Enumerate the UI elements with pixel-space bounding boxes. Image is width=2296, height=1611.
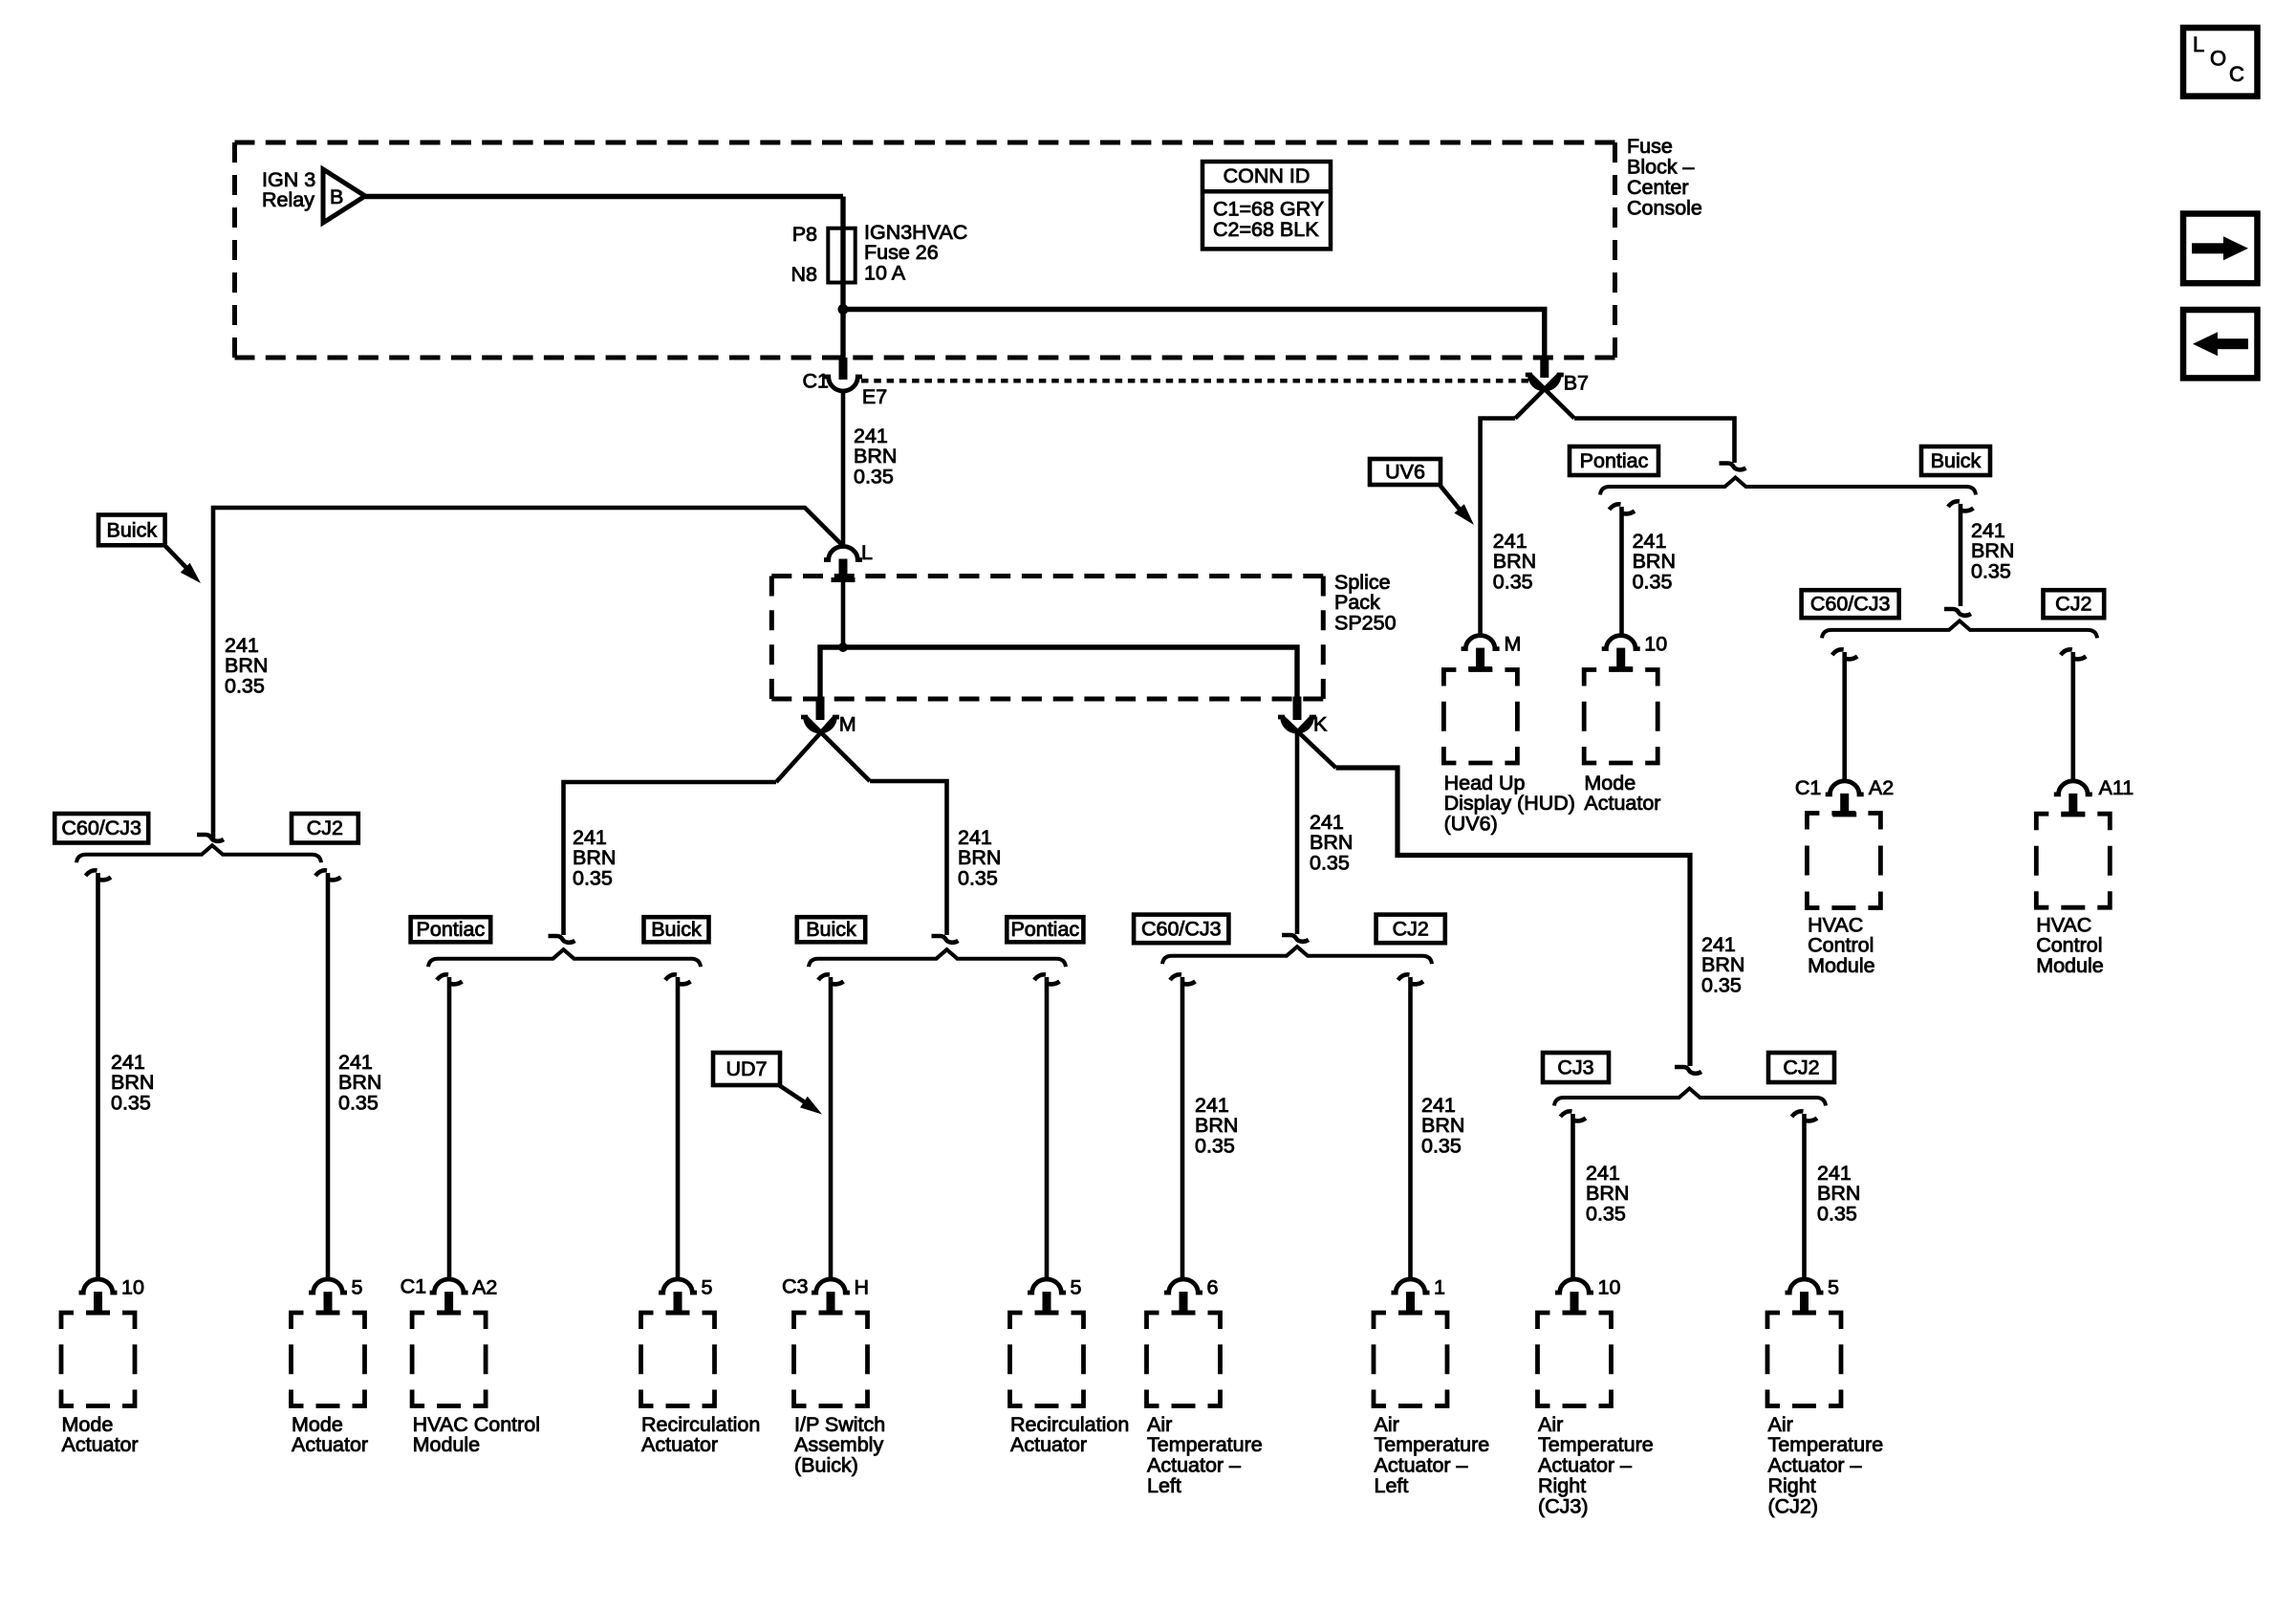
svg-text:Buick: Buick (1931, 449, 1982, 472)
svg-text:0.35: 0.35 (1310, 852, 1350, 875)
svg-text:Fuse 26: Fuse 26 (864, 241, 939, 264)
svg-text:241: 241 (1493, 530, 1527, 553)
label IGN 3 Relay (262, 168, 315, 211)
hook and wire to Recirculation Actuator (A) (665, 974, 691, 1279)
svg-text:Module: Module (2036, 954, 2104, 977)
wire label 241 BRN 0.35 (col10) (1817, 1162, 1860, 1226)
brace feed curl (right C60 group) (1944, 609, 1971, 616)
svg-text:Control: Control (2036, 934, 2102, 957)
connector A11 of HVAC module (CJ2) (2054, 776, 2134, 817)
svg-text:CJ2: CJ2 (1393, 917, 1429, 940)
Mode Actuator 1 dashed box (61, 1313, 135, 1406)
svg-text:Mode: Mode (62, 1413, 114, 1436)
svg-text:CJ2: CJ2 (2055, 593, 2091, 616)
wire C1 to connector L (841, 391, 846, 547)
svg-text:Temperature: Temperature (1375, 1433, 1490, 1456)
svg-text:BRN: BRN (225, 654, 268, 677)
connector 10 of Air Temperature Actuator - Right (CJ3) (1555, 1275, 1620, 1315)
svg-text:A2: A2 (1869, 776, 1894, 799)
svg-text:10: 10 (1598, 1275, 1621, 1298)
label I/P Switch Assembly (Buick) (794, 1413, 885, 1477)
svg-text:Pack: Pack (1334, 591, 1380, 614)
hook and wire to Air Temp Actuator Right CJ2 (1792, 1111, 1818, 1279)
svg-text:Center: Center (1627, 176, 1689, 199)
label CJ2 (group C) (1376, 915, 1445, 944)
dotted in-line connector line (861, 379, 1528, 383)
svg-text:241: 241 (1971, 519, 2005, 542)
wire M right branch to Buick/Pontiac brace (870, 781, 947, 935)
brace group D (1554, 1089, 1826, 1106)
svg-text:Temperature: Temperature (1147, 1433, 1263, 1456)
label Mode Actuator 1 (62, 1413, 139, 1456)
label Buick (top right) (1921, 446, 1990, 475)
brace group A (428, 949, 701, 967)
wire M left branch to Pontiac/Buick brace (564, 782, 777, 935)
svg-text:Temperature: Temperature (1538, 1433, 1654, 1456)
svg-text:Recirculation: Recirculation (1010, 1413, 1129, 1436)
wire label 241 BRN 0.35 (col7) (1195, 1094, 1238, 1158)
svg-text:C1: C1 (803, 370, 829, 393)
svg-text:Fuse: Fuse (1627, 135, 1673, 158)
wire label 241 BRN 0.35 (M right) (958, 826, 1001, 890)
svg-text:A11: A11 (2099, 776, 2134, 799)
svg-text:Control: Control (1808, 934, 1874, 957)
svg-text:(CJ2): (CJ2) (1768, 1494, 1819, 1517)
hook and wire to HVAC module A11 (2061, 649, 2087, 782)
svg-text:5: 5 (352, 1275, 363, 1298)
label CJ2 (group D) (1768, 1053, 1834, 1082)
svg-text:BRN: BRN (1701, 953, 1744, 976)
svg-text:0.35: 0.35 (573, 867, 613, 890)
label HVAC Control Module (bottom) (413, 1413, 540, 1456)
label Air Temperature Actuator - Left 1 (1375, 1413, 1490, 1497)
label CJ2 (left) (292, 814, 358, 843)
svg-text:10: 10 (121, 1275, 144, 1298)
svg-text:P8: P8 (792, 223, 817, 246)
wire L into splice bus (841, 578, 846, 647)
svg-text:241: 241 (338, 1051, 373, 1074)
hook and wire to I/P switch assembly (818, 974, 844, 1279)
label Pontiac (group B) (1007, 917, 1083, 942)
svg-text:BRN: BRN (1421, 1114, 1464, 1137)
label C60/CJ3 (left) (54, 814, 148, 843)
svg-text:241: 241 (1421, 1094, 1456, 1117)
svg-text:HVAC Control: HVAC Control (413, 1413, 540, 1436)
svg-text:C1: C1 (401, 1274, 426, 1297)
label Air Temperature Actuator - Right (CJ3) (1538, 1413, 1654, 1518)
brace right C60 group (1822, 620, 2097, 638)
forward arrow box (2183, 214, 2258, 284)
brace feed curl (group D) (1675, 1067, 1701, 1074)
svg-text:BRN: BRN (1586, 1182, 1629, 1205)
svg-text:5: 5 (702, 1275, 713, 1298)
svg-text:Air: Air (1768, 1413, 1793, 1436)
label UD7 with arrow (713, 1053, 822, 1115)
svg-text:241: 241 (573, 826, 607, 849)
svg-text:0.35: 0.35 (1195, 1135, 1235, 1158)
svg-text:L: L (2193, 33, 2204, 56)
svg-text:Pontiac: Pontiac (1010, 918, 1079, 941)
svg-text:Right: Right (1538, 1474, 1586, 1497)
svg-text:1: 1 (1434, 1275, 1445, 1298)
svg-text:0.35: 0.35 (1421, 1135, 1462, 1158)
Recirculation Actuator (A) dashed box (641, 1313, 715, 1406)
svg-text:241: 241 (111, 1051, 145, 1074)
svg-text:C60/CJ3: C60/CJ3 (1810, 593, 1891, 616)
svg-text:Console: Console (1627, 196, 1702, 219)
svg-text:Relay: Relay (262, 188, 314, 211)
label C60/CJ3 (group C) (1134, 915, 1228, 944)
svg-text:CONN ID: CONN ID (1224, 164, 1310, 187)
svg-text:C1=68 GRY: C1=68 GRY (1213, 197, 1324, 220)
brace feed curl (left group) (197, 835, 224, 841)
wire fuse vertical feed (840, 197, 845, 361)
svg-text:0.35: 0.35 (225, 675, 265, 698)
label HVAC Control Module (CJ2) (2036, 913, 2104, 977)
relay IGN 3 output triangle with pin B (323, 169, 365, 223)
svg-text:CJ2: CJ2 (1783, 1056, 1819, 1078)
svg-text:Head Up: Head Up (1444, 772, 1526, 795)
wire junction to B7 drop (843, 310, 1545, 361)
svg-text:HVAC: HVAC (2036, 913, 2091, 936)
svg-text:C1: C1 (1795, 776, 1821, 799)
wire relay B to fuse (365, 194, 843, 199)
wire label 241 BRN 0.35 (K right) (1701, 933, 1744, 997)
svg-text:Right: Right (1768, 1474, 1816, 1497)
wire label 241 BRN 0.35 (Mode right) (1633, 530, 1676, 594)
svg-text:Actuator: Actuator (292, 1433, 368, 1456)
label Pontiac (top right) (1570, 446, 1658, 475)
label Air Temperature Actuator - Right (CJ2) (1768, 1413, 1884, 1518)
LOC reference box (2183, 28, 2258, 97)
svg-text:HVAC: HVAC (1808, 913, 1863, 936)
svg-text:Splice: Splice (1334, 571, 1391, 594)
svg-text:Assembly: Assembly (794, 1433, 883, 1456)
label CJ3 (group D) (1543, 1053, 1609, 1082)
svg-text:Module: Module (413, 1433, 481, 1456)
svg-text:Buick: Buick (806, 918, 856, 941)
splice pack SP250 dashed box (771, 577, 1323, 700)
svg-text:C60/CJ3: C60/CJ3 (1141, 917, 1222, 940)
svg-text:Actuator: Actuator (62, 1433, 139, 1456)
svg-text:BRN: BRN (338, 1071, 381, 1094)
hook and wire down to C60/CJ3-CJ2 brace (1948, 501, 1974, 606)
Air Temperature Actuator - Left 6 dashed box (1147, 1313, 1221, 1406)
svg-text:241: 241 (1701, 933, 1736, 956)
connector B7 with crossover (1515, 358, 1589, 419)
connector 5 of Air Temperature Actuator - Right (CJ2) (1786, 1275, 1840, 1315)
svg-text:BRN: BRN (1971, 539, 2014, 562)
svg-text:Pontiac: Pontiac (417, 918, 486, 941)
wire label 241 BRN 0.35 (Buick right) (1971, 519, 2014, 583)
label Buick (group A) (644, 917, 709, 942)
HVAC Control Module dashed box (CJ2) (2036, 814, 2110, 907)
brace top right group (1600, 478, 1976, 495)
svg-text:C3: C3 (782, 1274, 809, 1297)
brace group B (809, 949, 1066, 967)
fuse block dashed box (Fuse Block - Center Console) (235, 142, 1615, 358)
connector 5 of Recirculation Actuator (A) (659, 1275, 713, 1315)
svg-text:10: 10 (1644, 633, 1667, 656)
svg-text:5: 5 (1828, 1275, 1839, 1298)
connector M of HUD (1462, 633, 1522, 672)
Air Temperature Actuator - Left 1 dashed box (1374, 1313, 1447, 1406)
svg-text:BRN: BRN (1310, 831, 1353, 854)
svg-text:B7: B7 (1564, 372, 1589, 395)
svg-text:(Buick): (Buick) (794, 1454, 858, 1477)
svg-text:M: M (839, 713, 856, 736)
svg-text:C2=68 BLK: C2=68 BLK (1213, 218, 1319, 241)
HVAC Control Module dashed box (CJ3) (1807, 814, 1880, 908)
wire label 241 BRN 0.35 (C1-L) (854, 425, 897, 489)
wire label 241 BRN 0.35 (col2) (338, 1051, 381, 1115)
junction dot at fuse output (838, 304, 849, 315)
svg-text:BRN: BRN (1633, 550, 1676, 573)
hook and wire to Mode Actuator 10 (86, 870, 112, 1279)
svg-text:Air: Air (1538, 1413, 1563, 1436)
wire K right branch to CJ3/CJ2 brace (1336, 768, 1691, 1066)
svg-text:K: K (1313, 713, 1328, 736)
label Air Temperature Actuator - Left 6 (1147, 1413, 1263, 1497)
svg-text:241: 241 (1195, 1094, 1229, 1117)
hook and wire to Mode Actuator 10 (right) (1610, 504, 1635, 637)
svg-text:Recirculation: Recirculation (641, 1413, 760, 1436)
wire B7 right branch to brace (1574, 419, 1735, 464)
svg-text:Block –: Block – (1627, 156, 1695, 179)
svg-text:Temperature: Temperature (1768, 1433, 1884, 1456)
connector 10 of Mode Actuator 1 (79, 1275, 144, 1315)
connector 5 of Recirculation Actuator (B) (1028, 1275, 1082, 1315)
svg-text:Module: Module (1808, 954, 1875, 977)
hook and wire to HVAC module C1/A2 (1832, 649, 1858, 782)
Air Temperature Actuator - Right (CJ2) dashed box (1767, 1313, 1841, 1406)
svg-text:Display (HUD): Display (HUD) (1444, 792, 1575, 815)
connector K with crossover (1278, 697, 1336, 935)
label Recirculation Actuator (B) (1010, 1413, 1129, 1456)
svg-text:BRN: BRN (1195, 1114, 1238, 1137)
Mode Actuator 2 dashed box (292, 1313, 365, 1406)
svg-text:Pontiac: Pontiac (1580, 449, 1649, 472)
label HVAC Control Module (CJ3) (1808, 913, 1875, 977)
svg-text:Actuator –: Actuator – (1147, 1454, 1241, 1477)
connector C1/A2 of HVAC module (CJ3) (1795, 776, 1894, 817)
splice bus bar SP250 (820, 647, 1297, 699)
HVAC Control Module (bottom) dashed box (412, 1313, 486, 1406)
label Buick with arrow (98, 515, 201, 584)
brace feed curl (group B) (932, 936, 959, 943)
svg-text:BRN: BRN (1817, 1182, 1860, 1205)
brace feed curl (group C) (1282, 935, 1309, 942)
label Fuse Block - Center Console (1627, 135, 1702, 219)
svg-text:CJ2: CJ2 (307, 816, 343, 839)
svg-text:BRN: BRN (1493, 550, 1536, 573)
svg-text:C60/CJ3: C60/CJ3 (61, 816, 141, 839)
label Mode Actuator 2 (292, 1413, 368, 1456)
svg-text:CJ3: CJ3 (1557, 1056, 1593, 1078)
svg-text:N8: N8 (791, 263, 818, 286)
svg-text:0.35: 0.35 (338, 1092, 379, 1115)
svg-text:UV6: UV6 (1385, 460, 1425, 483)
svg-text:6: 6 (1207, 1275, 1219, 1298)
svg-text:Actuator –: Actuator – (1538, 1454, 1632, 1477)
brace left group (76, 845, 321, 862)
connector M with crossover (776, 697, 870, 783)
hook and wire to Mode Actuator 5 (315, 870, 341, 1279)
hook and wire to Recirculation Actuator (B) (1034, 974, 1060, 1279)
svg-text:SP250: SP250 (1334, 612, 1397, 635)
svg-text:Mode: Mode (292, 1413, 343, 1436)
Recirculation Actuator (B) dashed box (1010, 1313, 1084, 1406)
fuse IGN3HVAC Fuse 26 10A (791, 221, 968, 286)
svg-text:241: 241 (225, 634, 259, 657)
svg-text:241: 241 (1310, 811, 1344, 834)
connector 6 of Air Temperature Actuator - Left 6 (1164, 1275, 1219, 1315)
svg-text:Actuator: Actuator (641, 1433, 718, 1456)
brace group C (1162, 947, 1432, 964)
wire label 241 BRN 0.35 (M left) (573, 826, 616, 890)
wire B7 left branch to HUD (1481, 419, 1516, 638)
back arrow box (2183, 310, 2258, 378)
connector A2 of HVAC Control Module (bottom) (401, 1274, 498, 1315)
wire label 241 BRN 0.35 (col9) (1586, 1162, 1629, 1226)
svg-text:IGN3HVAC: IGN3HVAC (864, 221, 967, 244)
connector L (824, 541, 873, 582)
hook and wire to HVAC control module (437, 974, 463, 1279)
svg-text:Left: Left (1375, 1474, 1409, 1497)
label Mode Actuator (right) (1584, 772, 1660, 815)
svg-text:241: 241 (1817, 1162, 1852, 1185)
Air Temperature Actuator - Right (CJ3) dashed box (1538, 1313, 1612, 1406)
svg-text:Actuator: Actuator (1010, 1433, 1087, 1456)
svg-text:BRN: BRN (573, 846, 616, 869)
svg-text:B: B (330, 185, 343, 208)
I/P Switch Assembly (Buick) dashed box (794, 1313, 868, 1406)
svg-text:0.35: 0.35 (111, 1092, 151, 1115)
svg-text:M: M (1505, 633, 1522, 656)
junction dot on splice bus (838, 642, 848, 652)
svg-text:241: 241 (854, 425, 888, 447)
svg-text:A2: A2 (472, 1275, 497, 1298)
svg-text:241: 241 (958, 826, 992, 849)
Head Up Display dashed box (1443, 670, 1517, 764)
svg-text:Air: Air (1147, 1413, 1172, 1436)
label Head Up Display (HUD) (UV6) (1444, 772, 1575, 836)
hook and wire to Air Temp Actuator Left 1 (1398, 974, 1424, 1279)
svg-text:0.35: 0.35 (1586, 1203, 1626, 1226)
svg-text:I/P Switch: I/P Switch (794, 1413, 885, 1436)
svg-text:241: 241 (1586, 1162, 1620, 1185)
svg-text:5: 5 (1071, 1275, 1082, 1298)
connector 5 of Mode Actuator 2 (309, 1275, 363, 1315)
svg-text:10 A: 10 A (864, 262, 906, 285)
svg-text:BRN: BRN (111, 1071, 154, 1094)
svg-text:241: 241 (1633, 530, 1667, 553)
svg-text:0.35: 0.35 (1817, 1203, 1857, 1226)
svg-text:BRN: BRN (854, 445, 897, 468)
svg-text:Air: Air (1375, 1413, 1399, 1436)
svg-text:E7: E7 (862, 385, 887, 408)
svg-text:0.35: 0.35 (958, 867, 998, 890)
label Pontiac (group A) (411, 917, 491, 942)
label Recirculation Actuator (A) (641, 1413, 760, 1456)
svg-text:IGN 3: IGN 3 (262, 168, 315, 191)
svg-text:Buick: Buick (651, 918, 702, 941)
svg-text:Actuator: Actuator (1584, 792, 1660, 815)
wire label 241 BRN 0.35 (Buick branch) (225, 634, 268, 698)
svg-text:(UV6): (UV6) (1444, 813, 1498, 836)
CONN ID table (1202, 162, 1331, 249)
Mode Actuator dashed box (right) (1584, 670, 1657, 764)
hook and wire to Air Temp Actuator Left 6 (1170, 974, 1196, 1279)
connector 1 of Air Temperature Actuator - Left 1 (1392, 1275, 1445, 1315)
label Splice Pack SP250 (1334, 571, 1397, 635)
wire label 241 BRN 0.35 (col1) (111, 1051, 154, 1115)
svg-text:Mode: Mode (1584, 772, 1635, 795)
svg-text:Actuator –: Actuator – (1768, 1454, 1862, 1477)
wire label 241 BRN 0.35 (col8) (1421, 1094, 1464, 1158)
wire label 241 BRN 0.35 (K down) (1310, 811, 1353, 875)
brace feed curl (group A) (549, 936, 575, 943)
connector 10 of Mode Actuator (right) (1602, 633, 1668, 672)
wire Buick branch horizontal (213, 508, 841, 840)
label UV6 with arrow (1370, 459, 1474, 525)
svg-text:C: C (2229, 62, 2244, 86)
connector H of I/P Switch Assembly (Buick) (782, 1274, 869, 1315)
svg-text:(CJ3): (CJ3) (1538, 1494, 1589, 1517)
svg-text:L: L (861, 541, 873, 564)
connector C1/E7 (803, 358, 888, 408)
svg-text:0.35: 0.35 (854, 466, 894, 489)
svg-text:H: H (855, 1275, 870, 1298)
svg-text:0.35: 0.35 (1633, 571, 1673, 594)
hook and wire to Air Temp Actuator Right CJ3 (1561, 1111, 1587, 1279)
svg-text:UD7: UD7 (726, 1057, 767, 1080)
label C60/CJ3 (right) (1802, 590, 1899, 618)
svg-text:0.35: 0.35 (1493, 571, 1533, 594)
svg-text:0.35: 0.35 (1701, 974, 1742, 997)
svg-text:O: O (2210, 46, 2226, 70)
label CJ2 (right) (2044, 590, 2105, 618)
svg-text:Buick: Buick (107, 518, 158, 541)
wire label 241 BRN 0.35 (HUD) (1493, 530, 1536, 594)
svg-text:BRN: BRN (958, 846, 1001, 869)
svg-text:Left: Left (1147, 1474, 1181, 1497)
brace feed curl (top right group) (1720, 464, 1746, 470)
label Buick (group B) (797, 917, 865, 942)
svg-text:Actuator –: Actuator – (1375, 1454, 1468, 1477)
svg-text:0.35: 0.35 (1971, 560, 2011, 583)
